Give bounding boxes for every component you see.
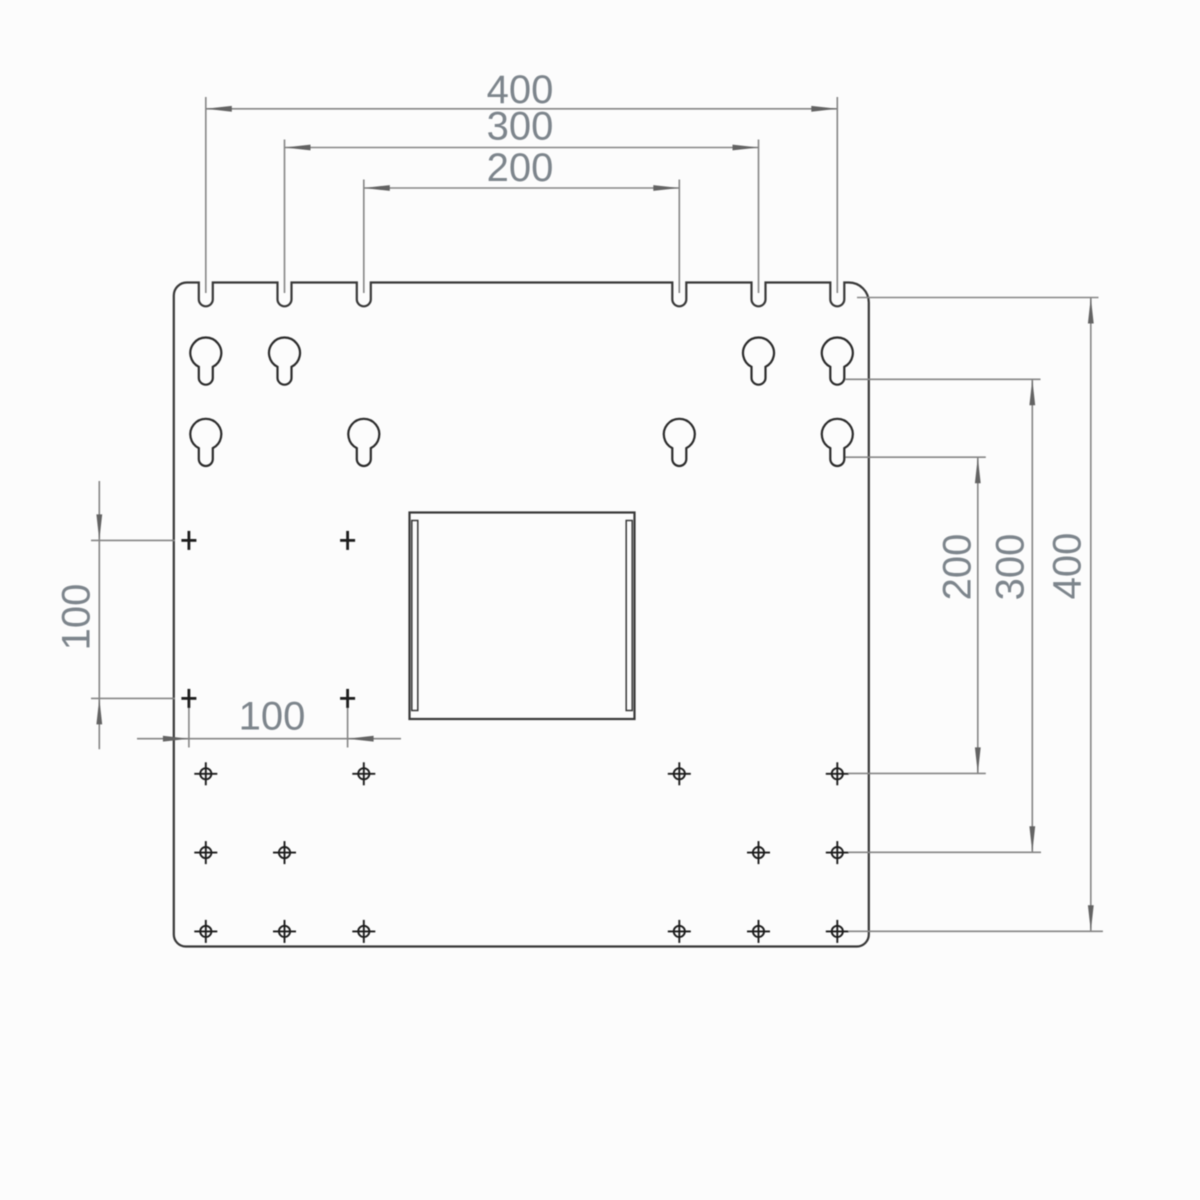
keyhole slot lower row, 200 col L: [348, 419, 379, 466]
keyhole slot top row, 300 col L: [269, 338, 300, 385]
hole centre mark at (837,931): [826, 920, 849, 943]
hole centre mark at (758,853): [747, 841, 770, 864]
cross mark 100 pattern at (348,698): [340, 689, 355, 708]
hole centre mark at (284,931): [273, 920, 296, 943]
hole centre mark at (206,931): [194, 920, 217, 943]
plate outline with mounting notches: [174, 283, 869, 947]
hole centre mark at (284,853): [273, 841, 296, 864]
dimension 100 vertical left: [55, 481, 176, 749]
cross mark 100 pattern at (189,698): [181, 689, 196, 708]
hole centre mark at (679,931): [668, 920, 691, 943]
keyhole slot lower row, 200 col R: [664, 419, 695, 466]
cut-out right clip bar: [626, 521, 632, 711]
hole centre mark at (837,853): [826, 841, 849, 864]
dimension 300 horizontal top: [285, 105, 759, 294]
keyhole slot top row, 400 col R: [822, 338, 853, 385]
dimension 200 horizontal top: [364, 146, 680, 293]
dimension 300 vertical right: [846, 379, 1042, 852]
hole centre mark at (837,774): [826, 762, 849, 785]
dimension 400 horizontal top: [206, 68, 838, 293]
keyhole slot lower row, 400 col L: [190, 419, 221, 466]
svg-text:300: 300: [989, 534, 1033, 601]
dimension 400 vertical right: [848, 298, 1103, 932]
svg-text:100: 100: [239, 695, 306, 739]
keyhole slot lower row, 400 col R: [822, 419, 853, 466]
cut-out left clip bar: [412, 521, 418, 711]
svg-text:400: 400: [1046, 533, 1090, 600]
hole centre mark at (758,931): [747, 920, 770, 943]
centre square cut-out: [410, 513, 635, 720]
cross mark 100 pattern at (348,540): [340, 531, 355, 550]
hole centre mark at (364,931): [352, 920, 375, 943]
keyhole slot top row, 300 col R: [743, 338, 774, 385]
svg-text:300: 300: [487, 105, 554, 149]
svg-text:200: 200: [487, 146, 554, 190]
hole centre mark at (206,853): [194, 841, 217, 864]
svg-text:100: 100: [55, 584, 99, 651]
dimension 200 vertical right: [846, 457, 986, 773]
hole centre mark at (364,774): [352, 762, 375, 785]
keyhole slot top row, 400 col L: [190, 338, 221, 385]
hole centre mark at (206,774): [194, 762, 217, 785]
hole centre mark at (679,774): [668, 762, 691, 785]
svg-text:200: 200: [936, 534, 980, 601]
dimension 100 horizontal lower left: [137, 695, 401, 748]
cross mark 100 pattern at (189,540): [181, 531, 196, 550]
